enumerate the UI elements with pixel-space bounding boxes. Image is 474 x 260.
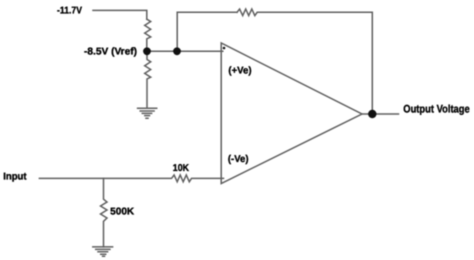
svg-text:-11.7V: -11.7V — [57, 6, 82, 17]
svg-text:10K: 10K — [173, 163, 190, 174]
svg-text:Output Voltage: Output Voltage — [403, 104, 469, 116]
svg-text:(+Ve): (+Ve) — [228, 66, 251, 77]
svg-text:(-Ve): (-Ve) — [228, 154, 249, 165]
svg-text:Input: Input — [3, 172, 27, 183]
svg-text:500K: 500K — [110, 206, 135, 217]
svg-text:-8.5V (Vref): -8.5V (Vref) — [84, 47, 137, 58]
